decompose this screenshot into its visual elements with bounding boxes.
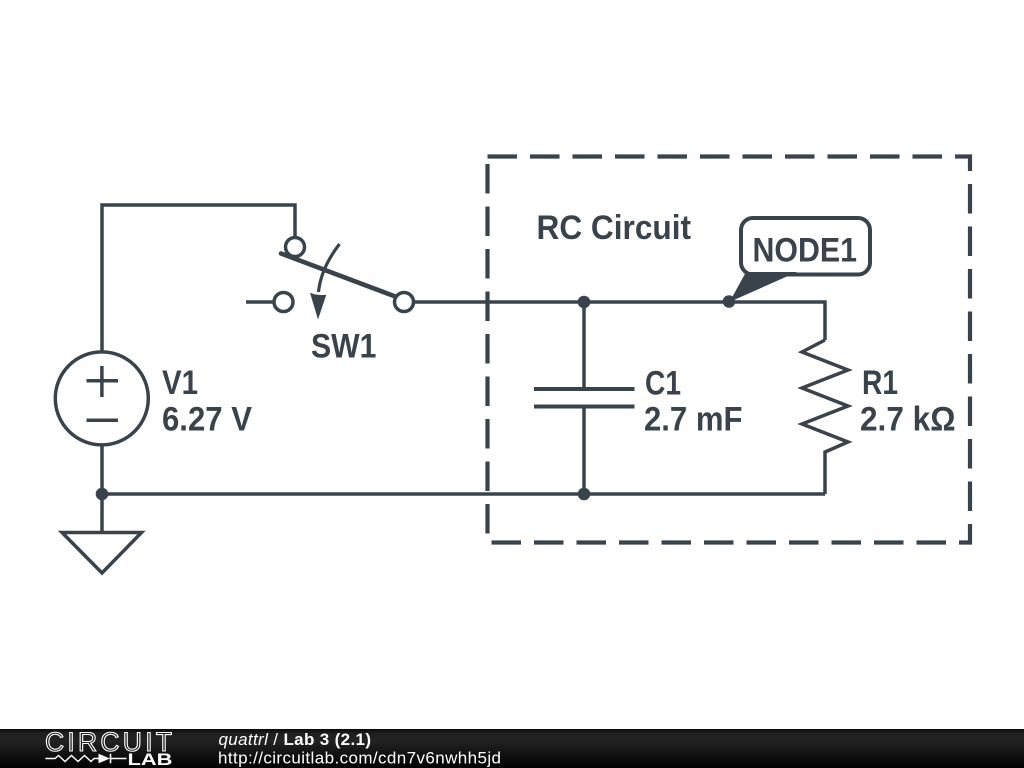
switch SW1 blade — [281, 254, 398, 298]
svg-text:R1: R1 — [862, 364, 898, 402]
logo diode — [99, 754, 111, 764]
V1 plus sign — [87, 366, 119, 397]
svg-text:http://circuitlab.com/cdn7v6nw: http://circuitlab.com/cdn7v6nwhh5jd — [218, 749, 501, 768]
switch SW1 top terminal — [286, 238, 305, 257]
svg-text:C1: C1 — [645, 364, 681, 402]
main top wire — [414, 302, 826, 340]
wire to ground — [100, 494, 104, 533]
svg-text:SW1: SW1 — [311, 328, 377, 366]
switch SW1 left terminal — [274, 293, 293, 312]
V1 minus sign — [87, 418, 119, 422]
switch SW1 arrow arc — [319, 244, 340, 292]
junction node C1 top — [578, 296, 591, 309]
logo resistor squiggle — [46, 756, 99, 762]
svg-text:6.27 V: 6.27 V — [162, 401, 252, 439]
footer bar — [0, 729, 1024, 768]
switch SW1 right terminal — [395, 293, 414, 312]
capacitor C1 plates — [534, 389, 635, 407]
wire from V1 top to switch — [102, 205, 295, 352]
switch SW1 arrowhead — [310, 293, 326, 320]
resistor R1 zigzag — [802, 340, 848, 494]
switch SW1 left stub wire — [246, 300, 274, 304]
dashed box RC Circuit — [488, 157, 971, 543]
capacitor C1 bottom lead — [582, 407, 586, 495]
svg-text:LAB: LAB — [128, 750, 173, 768]
svg-text:NODE1: NODE1 — [753, 232, 858, 270]
wire V1 bottom — [100, 445, 104, 494]
junction node C1 bottom — [578, 488, 591, 501]
node NODE1 junction dot — [723, 295, 736, 308]
svg-text:2.7 mF: 2.7 mF — [644, 401, 743, 439]
svg-text:quattrl / Lab 3 (2.1): quattrl / Lab 3 (2.1) — [219, 730, 372, 749]
svg-text:2.7 kΩ: 2.7 kΩ — [860, 401, 956, 439]
capacitor C1 top lead — [582, 302, 586, 389]
svg-text:RC Circuit: RC Circuit — [537, 209, 692, 247]
svg-text:V1: V1 — [162, 364, 198, 402]
ground — [62, 533, 142, 574]
node NODE1 callout — [730, 218, 871, 302]
voltage source V1 — [55, 352, 148, 445]
bottom wire — [102, 492, 825, 496]
junction node V1/bottom wire — [96, 488, 109, 501]
